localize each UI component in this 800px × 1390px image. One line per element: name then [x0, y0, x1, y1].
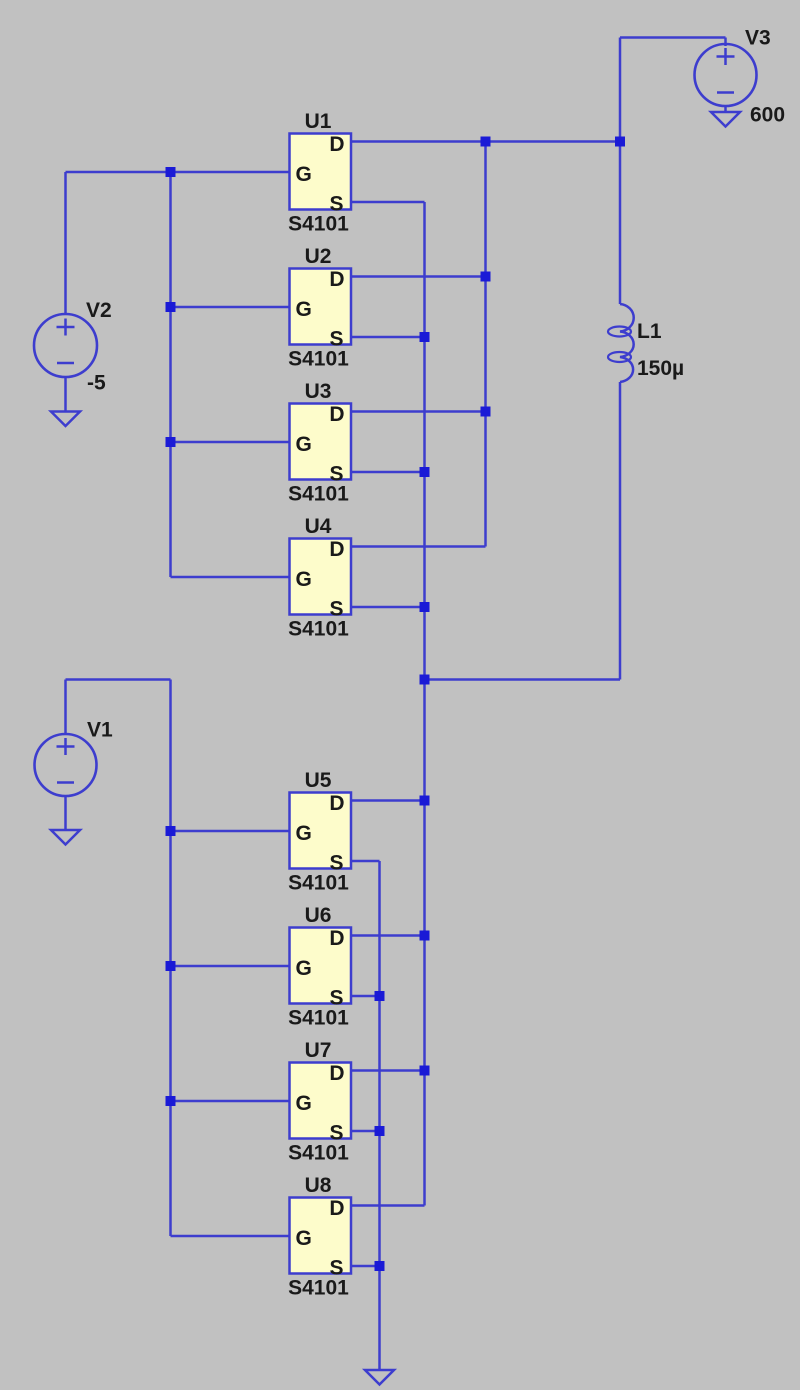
wire U5 S pin to S trunk — [351, 860, 380, 863]
svg-text:U4: U4 — [305, 515, 332, 538]
wire V1 row horizontal — [66, 678, 171, 681]
junction U7 D at trunk — [420, 1066, 430, 1076]
switch U4 body (S4101) — [290, 539, 352, 615]
svg-text:G: G — [296, 822, 312, 845]
svg-text:V1: V1 — [87, 719, 113, 742]
wire U8 S pin to S trunk — [351, 1265, 380, 1268]
svg-text:G: G — [296, 1092, 312, 1115]
wire U6 S pin to S trunk — [351, 995, 380, 998]
wire V3 bottom lead — [724, 106, 727, 113]
svg-text:V3: V3 — [745, 27, 771, 50]
wire U6 D pin to trunk — [351, 934, 425, 937]
wire U8 D pin to trunk — [351, 1204, 425, 1207]
svg-text:S4101: S4101 — [288, 872, 349, 895]
switch U7 body (S4101) — [290, 1063, 352, 1139]
svg-text:L1: L1 — [637, 320, 662, 343]
ground below V1 — [51, 830, 80, 845]
svg-text:D: D — [329, 538, 344, 561]
svg-text:G: G — [296, 957, 312, 980]
wire bottom S trunk vertical — [378, 861, 381, 1370]
wire V3 top lead — [724, 38, 727, 47]
wire L1 bottom lead vertical — [619, 382, 622, 680]
svg-text:G: G — [296, 298, 312, 321]
switch U8 body (S4101) — [290, 1198, 352, 1274]
svg-text:V2: V2 — [86, 299, 112, 322]
svg-text:150µ: 150µ — [637, 357, 684, 380]
V2 plus sign — [57, 319, 75, 336]
wire gate trunk to U8 G — [171, 1235, 290, 1238]
wire U2 D pin to D trunk — [351, 275, 486, 278]
junction U7 G at gate trunk — [166, 1096, 176, 1106]
svg-text:D: D — [329, 268, 344, 291]
wire gate trunk to U3 G — [171, 441, 290, 444]
ground below V2 — [51, 412, 80, 427]
svg-text:D: D — [329, 1197, 344, 1220]
svg-text:S4101: S4101 — [288, 1007, 349, 1030]
junction U3 G at gate trunk — [166, 437, 176, 447]
junction trunk at L1 bottom row — [420, 675, 430, 685]
svg-text:G: G — [296, 1227, 312, 1250]
junction U2 S at trunk — [420, 332, 430, 342]
switch U6 body (S4101) — [290, 928, 352, 1004]
wire L1 bottom to trunk horizontal — [425, 678, 621, 681]
switch U2 body (S4101) — [290, 269, 352, 345]
wire V1 bottom lead — [64, 796, 67, 831]
junction U4 S at trunk — [420, 602, 430, 612]
wire U3 S pin to S trunk — [351, 471, 425, 474]
svg-text:S4101: S4101 — [288, 348, 349, 371]
V3 plus sign — [717, 48, 735, 65]
wire S/D trunk vertical — [423, 202, 426, 1206]
svg-text:G: G — [296, 163, 312, 186]
ground below V3 — [711, 112, 740, 127]
voltage source V2 circle — [34, 314, 97, 377]
junction U3 S at trunk — [420, 467, 430, 477]
svg-text:G: G — [296, 433, 312, 456]
wire U2 S pin to S trunk — [351, 336, 425, 339]
wire gate trunk to U2 G — [171, 306, 290, 309]
svg-text:D: D — [329, 403, 344, 426]
svg-text:600: 600 — [750, 104, 785, 127]
junction U2 D at D trunk — [481, 272, 491, 282]
junction U6 G at gate trunk — [166, 961, 176, 971]
wire U4 D pin to D trunk — [351, 545, 486, 548]
wire gate trunk to U4 G — [171, 576, 290, 579]
V3 minus sign — [717, 91, 734, 94]
svg-text:U2: U2 — [305, 245, 332, 268]
wire U7 D pin to trunk — [351, 1069, 425, 1072]
junction U6 D at trunk — [420, 931, 430, 941]
svg-text:G: G — [296, 568, 312, 591]
svg-text:U8: U8 — [305, 1174, 332, 1197]
voltage source V3 circle — [695, 44, 757, 106]
voltage source V1 circle — [35, 734, 97, 796]
wire right column vertical to L1 top — [619, 38, 622, 305]
svg-text:U1: U1 — [305, 110, 332, 133]
svg-text:D: D — [329, 1062, 344, 1085]
junction U3 D at D trunk — [481, 407, 491, 417]
wire V1 top lead vertical — [64, 680, 67, 735]
ground at bottom S trunk — [365, 1370, 394, 1385]
svg-text:S4101: S4101 — [288, 1142, 349, 1165]
svg-text:U3: U3 — [305, 380, 332, 403]
junction U5 G at gate trunk — [166, 826, 176, 836]
junction U8 S at trunk — [375, 1261, 385, 1271]
svg-text:-5: -5 — [87, 372, 106, 395]
svg-text:D: D — [329, 133, 344, 156]
switch U3 body (S4101) — [290, 404, 352, 480]
V1 minus sign — [57, 781, 74, 784]
V2 minus sign — [57, 362, 74, 365]
wire U4 S pin to S trunk — [351, 606, 425, 609]
svg-text:D: D — [329, 792, 344, 815]
svg-text:D: D — [329, 927, 344, 950]
svg-text:S4101: S4101 — [288, 1277, 349, 1300]
junction U7 S at trunk — [375, 1126, 385, 1136]
wire top gate trunk vertical — [169, 172, 172, 577]
junction V2 row at gate trunk — [166, 167, 176, 177]
junction U5 D at trunk — [420, 796, 430, 806]
L1 coil loop upper — [608, 327, 631, 337]
wire U1 D pin to right column — [351, 140, 620, 143]
svg-text:S4101: S4101 — [288, 213, 349, 236]
wire U3 D pin to D trunk — [351, 410, 486, 413]
svg-text:S4101: S4101 — [288, 483, 349, 506]
svg-text:U7: U7 — [305, 1039, 332, 1062]
wire U5 D pin to trunk — [351, 799, 425, 802]
junction U1 D at D trunk — [481, 137, 491, 147]
wire V2 top lead vertical — [64, 172, 67, 314]
L1 coil loop lower — [608, 352, 631, 362]
wire U1 S pin to S trunk — [351, 201, 425, 204]
switch U5 body (S4101) — [290, 793, 352, 869]
wire U7 S pin to S trunk — [351, 1130, 380, 1133]
junction U6 S at trunk — [375, 991, 385, 1001]
wire V2 row horizontal to U1 G — [66, 171, 290, 174]
inductor L1 coil — [620, 304, 634, 382]
wire bottom gate trunk vertical — [169, 680, 172, 1237]
V1 plus sign — [57, 738, 75, 755]
svg-text:U6: U6 — [305, 904, 332, 927]
svg-text:U5: U5 — [305, 769, 332, 792]
wire V2 bottom lead — [64, 377, 67, 412]
switch U1 body (S4101) — [290, 134, 352, 210]
wire top horizontal to V3 — [620, 36, 726, 39]
wire gate trunk to U7 G — [171, 1100, 290, 1103]
wire gate trunk to U6 G — [171, 965, 290, 968]
svg-text:S4101: S4101 — [288, 618, 349, 641]
junction U2 G at gate trunk — [166, 302, 176, 312]
wire gate trunk to U5 G — [171, 830, 290, 833]
junction U1 D row at right column — [615, 137, 625, 147]
wire top D trunk vertical — [484, 142, 487, 547]
